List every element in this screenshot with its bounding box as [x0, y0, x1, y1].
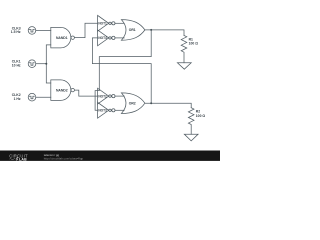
svg-text:NOT2: NOT2 [98, 94, 107, 98]
inverter NOT2 [98, 88, 115, 104]
watermark banner [0, 151, 220, 161]
svg-text:1 Hz: 1 Hz [14, 97, 21, 101]
wire OR2 out to R2 [145, 103, 191, 108]
label CLK1 10 Hz [12, 60, 21, 68]
node OR2 output junction [150, 102, 152, 104]
label CLK3 1.5 Hz [11, 26, 21, 34]
inverter NOT1 [98, 15, 115, 31]
svg-text:OR2: OR2 [129, 101, 136, 105]
wire NOT4 out to OR1 input B [115, 37, 124, 39]
svg-text:NOT4: NOT4 [98, 36, 107, 40]
svg-text:NOT3: NOT3 [98, 109, 107, 113]
wire junction down to NAND2 input A [46, 64, 51, 83]
nand gate NAND2 [51, 80, 75, 101]
svg-text:NAND1: NAND1 [56, 36, 68, 40]
label R2 100 ohm [196, 110, 206, 118]
resistor R1 [181, 35, 187, 62]
clock source CLK2 [28, 93, 36, 101]
svg-text:OR1: OR1 [129, 28, 136, 32]
wire feedback OR1 out to NOT3 in [95, 30, 151, 110]
wire feedback OR2 out to NOT4 in [92, 38, 151, 103]
label CLK2 1 Hz [12, 93, 21, 101]
wire CLK2 to NAND2 input B [36, 96, 51, 98]
label R1 100 ohm [189, 37, 199, 45]
wire NAND2 out to NOT2 in [74, 90, 97, 96]
svg-text:http://circuitlab.com/c/asw4fq: http://circuitlab.com/c/asw4fqp [44, 157, 84, 161]
wire CLK3 to NAND1 input A [36, 29, 51, 31]
clock source CLK3 [28, 27, 36, 35]
inverter NOT3 [98, 102, 115, 118]
svg-text:100 Ω: 100 Ω [196, 114, 206, 118]
svg-text:100 Ω: 100 Ω [189, 42, 199, 46]
logo CIRCUIT LAB [9, 153, 83, 162]
ground for R1 [177, 63, 191, 69]
resistor R2 [188, 108, 194, 135]
wire OR1 out to R1 [145, 30, 184, 36]
inverter NOT4 [98, 30, 115, 46]
wire NOT3 out to OR2 input B [115, 109, 124, 111]
node OR1 output junction [150, 29, 152, 31]
clock source CLK1 [28, 60, 36, 68]
wire NOT2 out to OR2 input A [115, 95, 124, 97]
wire junction up to NAND1 input B [46, 45, 51, 64]
svg-text:NAND2: NAND2 [56, 88, 68, 92]
svg-text:10 Hz: 10 Hz [12, 63, 21, 67]
svg-text:NOT1: NOT1 [98, 22, 107, 26]
ground for R2 [184, 134, 198, 141]
svg-text:LAB: LAB [19, 157, 27, 161]
wire CLK1 to junction [36, 63, 47, 65]
node junction CLK1 [45, 63, 47, 65]
or gate OR1 [121, 20, 144, 41]
nand gate NAND1 [51, 27, 75, 48]
svg-text:1.5 Hz: 1.5 Hz [11, 30, 21, 34]
wire NOT1 out to OR1 input A [115, 22, 124, 24]
wire NAND1 out to NOT1 in [74, 23, 97, 37]
or gate OR2 [121, 93, 144, 114]
